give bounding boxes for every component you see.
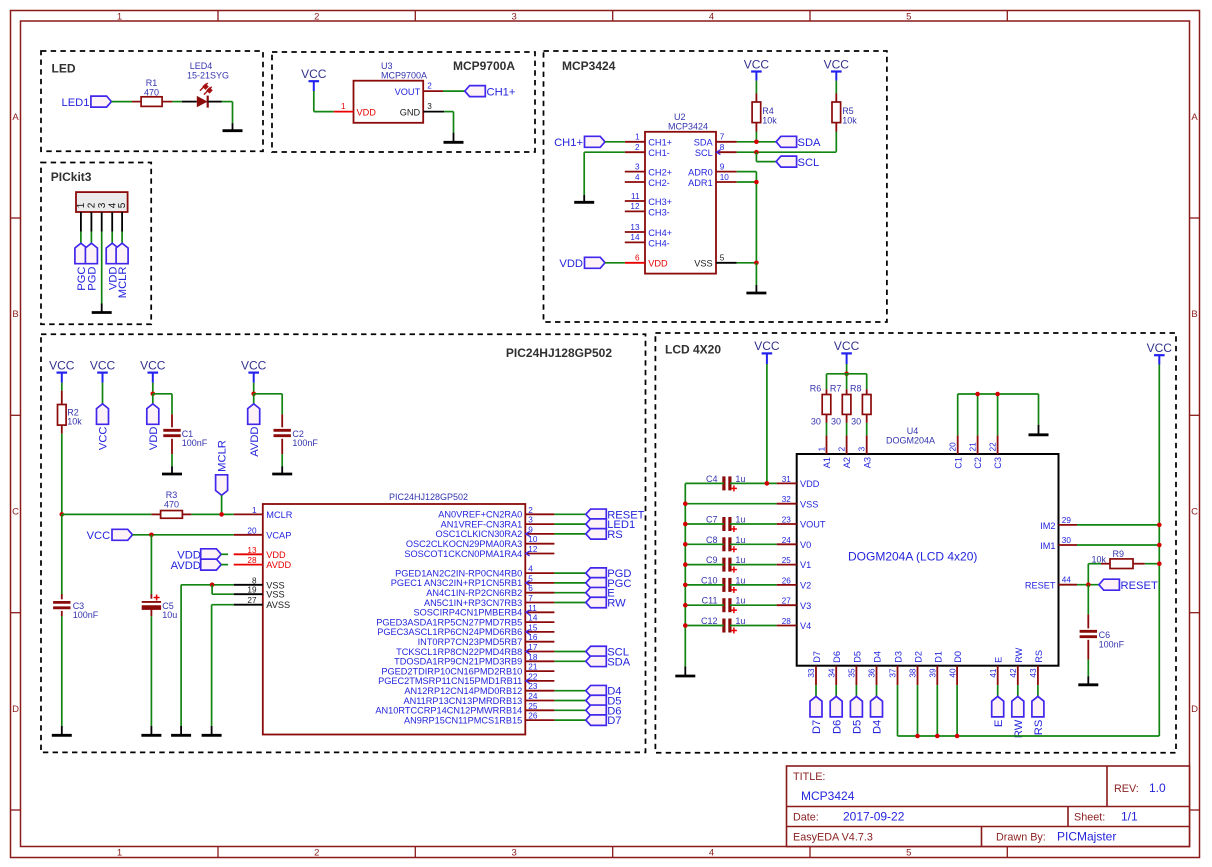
wire (685, 523, 776, 525)
svg-text:D: D (12, 704, 19, 715)
svg-text:AN10RTCCRP14CN12PMWRRB14: AN10RTCCRP14CN12PMWRRB14 (375, 706, 522, 716)
svg-text:30: 30 (1062, 536, 1072, 545)
svg-text:A2: A2 (842, 457, 852, 468)
svg-text:R9: R9 (1113, 549, 1125, 559)
wire (1077, 544, 1159, 546)
svg-text:D5: D5 (852, 720, 864, 734)
junction (754, 140, 759, 145)
pin 3 (101, 212, 103, 232)
ground (92, 304, 112, 313)
wire (254, 394, 283, 414)
svg-text:V1: V1 (800, 560, 811, 570)
svg-text:EasyEDA V4.7.3: EasyEDA V4.7.3 (793, 832, 873, 844)
svg-text:33: 33 (807, 668, 816, 678)
wire (1088, 564, 1159, 585)
pin 33 D7 (807, 651, 822, 685)
svg-text:Sheet:: Sheet: (1074, 812, 1105, 824)
pin 20 C1 (949, 435, 964, 468)
svg-text:SDA: SDA (694, 138, 714, 148)
VCC symbol (90, 358, 116, 382)
net flag VDD (106, 243, 119, 290)
svg-text:C12: C12 (701, 616, 718, 626)
pin 32 VSS (777, 495, 819, 509)
pin 2 CH1- (625, 143, 670, 158)
pin 6 AN4C1IN-RP2CN6RB2 (426, 584, 554, 598)
pin 26 AN9RP15CN11PMCS1RB15 (404, 712, 554, 726)
capacitor C7 1u (706, 515, 745, 533)
net flag RS (1032, 696, 1045, 735)
ground (272, 466, 292, 474)
svg-text:VSS: VSS (266, 590, 284, 600)
net flag D7 (810, 696, 823, 734)
svg-text:MCP3424: MCP3424 (668, 122, 708, 132)
svg-text:RESET: RESET (1025, 581, 1056, 591)
svg-text:ADR0: ADR0 (688, 168, 713, 178)
pin 1 CH1+ (625, 133, 672, 148)
svg-text:AN5C1IN+RP3CN7RB3: AN5C1IN+RP3CN7RB3 (424, 598, 522, 608)
pin 23 VOUT (777, 516, 826, 530)
junction (1157, 543, 1162, 548)
wire (685, 584, 776, 586)
svg-text:V0: V0 (800, 540, 811, 550)
svg-text:3: 3 (858, 446, 867, 451)
svg-text:1u: 1u (735, 575, 745, 585)
wire (737, 262, 757, 264)
svg-text:30: 30 (851, 417, 861, 427)
net flag MCLR (216, 440, 229, 495)
svg-text:2: 2 (635, 143, 640, 152)
junction (683, 603, 688, 608)
pin 13 VDD (234, 546, 286, 560)
svg-text:100nF: 100nF (1099, 639, 1125, 649)
capacitor C11 1u (702, 596, 746, 614)
capacitor C4 1u (706, 474, 745, 492)
svg-text:V3: V3 (800, 601, 811, 611)
wire (685, 625, 776, 627)
svg-text:DOGM204A (LCD 4x20): DOGM204A (LCD 4x20) (848, 550, 977, 564)
svg-text:C1: C1 (953, 457, 963, 469)
wire (827, 374, 867, 389)
svg-text:VSS: VSS (800, 499, 818, 509)
wire (554, 660, 585, 662)
svg-text:VCC: VCC (744, 57, 770, 71)
VCC symbol (754, 339, 780, 364)
svg-text:3: 3 (635, 162, 640, 171)
pin 8 VSS (234, 576, 285, 590)
LCD 4X20 block outline (655, 333, 1176, 753)
svg-text:9: 9 (720, 162, 725, 171)
net flag PGD (586, 568, 632, 580)
capacitor C9 1u (706, 555, 745, 573)
svg-text:11: 11 (528, 604, 537, 613)
svg-text:U2: U2 (674, 112, 686, 122)
svg-text:PGD: PGD (87, 267, 99, 291)
wire (554, 572, 585, 574)
wire (835, 685, 837, 696)
svg-text:31: 31 (782, 475, 792, 484)
wire (1077, 524, 1159, 526)
svg-text:SOSCOT1CKCN0PMA1RA4: SOSCOT1CKCN0PMA1RA4 (404, 549, 522, 559)
svg-text:AN4C1IN-RP2CN6RB2: AN4C1IN-RP2CN6RB2 (426, 588, 522, 598)
resistor R6 30 (810, 384, 831, 427)
svg-text:C: C (1191, 507, 1198, 518)
svg-text:PICMajster: PICMajster (1057, 830, 1116, 844)
pin 22 PGEC2TMSRP11CN15PMD1RB11 (378, 672, 554, 686)
svg-text:D3: D3 (894, 651, 904, 663)
svg-text:4: 4 (528, 565, 533, 574)
VCC symbol (824, 57, 850, 80)
pin 1 MCLR (234, 506, 293, 520)
wire (835, 132, 837, 152)
svg-text:12: 12 (630, 202, 640, 211)
svg-text:D4: D4 (872, 720, 884, 734)
net flag CH1+ (465, 86, 516, 99)
svg-text:VDD: VDD (800, 479, 820, 489)
pin 12 CH3- (625, 202, 670, 217)
wire (121, 232, 123, 244)
svg-text:CH2-: CH2- (648, 178, 669, 188)
svg-text:25: 25 (782, 556, 792, 565)
pin 1 VDD (334, 102, 377, 117)
net flag D4 (586, 685, 622, 697)
pin 4 CH2- (625, 173, 670, 188)
ground (1078, 676, 1098, 685)
svg-text:2: 2 (427, 82, 432, 91)
wire MCLR net (62, 513, 152, 515)
svg-text:AVSS: AVSS (266, 600, 290, 610)
ground (202, 726, 222, 735)
wire (444, 112, 453, 133)
svg-text:19: 19 (247, 586, 257, 595)
svg-text:CH1-: CH1- (648, 148, 669, 158)
wire (172, 101, 181, 103)
svg-text:5: 5 (720, 254, 725, 263)
pin 14 CH4- (625, 233, 670, 248)
junction (149, 533, 154, 538)
svg-text:2: 2 (314, 847, 319, 858)
pin 31 VDD (777, 475, 820, 489)
svg-text:1: 1 (117, 11, 122, 22)
net flag LED1 (586, 519, 635, 531)
svg-text:TCKSCL1RP8CN22PMD4RB8: TCKSCL1RP8CN22PMD4RB8 (396, 647, 522, 657)
svg-text:23: 23 (528, 682, 538, 691)
svg-text:VOUT: VOUT (395, 87, 421, 97)
svg-text:5: 5 (528, 574, 533, 583)
wire (222, 102, 233, 124)
wire (554, 709, 585, 711)
svg-text:44: 44 (1062, 576, 1072, 585)
svg-text:25: 25 (528, 702, 538, 711)
svg-text:RESET: RESET (1121, 580, 1158, 592)
pin 29 IM2 (1040, 516, 1077, 531)
capacitor C1 100nF (163, 414, 207, 454)
svg-text:100nF: 100nF (292, 438, 318, 448)
svg-text:D6: D6 (831, 720, 843, 734)
svg-text:CH4+: CH4+ (648, 228, 672, 238)
pin 2 VOUT (395, 82, 443, 97)
svg-text:C11: C11 (702, 596, 718, 606)
svg-text:1: 1 (117, 847, 122, 858)
ground (52, 726, 72, 735)
svg-text:17: 17 (528, 643, 538, 652)
pin 3 GND (400, 102, 444, 117)
svg-text:D5: D5 (852, 651, 862, 663)
svg-text:VCC: VCC (824, 57, 850, 71)
wire (685, 564, 776, 566)
svg-text:5: 5 (906, 11, 911, 22)
pin 11 SOSCIRP4CN1PMBERB4 (414, 604, 555, 618)
svg-text:VCC: VCC (301, 67, 327, 81)
svg-text:AN1VREF-CN3RA1: AN1VREF-CN3RA1 (441, 519, 523, 529)
wire (685, 543, 776, 545)
VCC symbol (1147, 341, 1173, 365)
wire SCL (737, 151, 837, 153)
svg-text:22: 22 (528, 672, 538, 681)
svg-text:OSC2CLKOCN29PMA0RA3: OSC2CLKOCN29PMA0RA3 (406, 539, 522, 549)
svg-text:2: 2 (837, 446, 846, 451)
wire (554, 700, 585, 702)
svg-text:5: 5 (906, 847, 911, 858)
svg-text:VCC: VCC (1147, 341, 1173, 355)
svg-text:22: 22 (988, 442, 997, 452)
wire (443, 90, 465, 92)
resistor R2 (58, 391, 83, 434)
net flag D7 (586, 715, 622, 727)
wire (61, 383, 63, 391)
svg-text:10: 10 (528, 535, 538, 544)
ground (162, 466, 182, 474)
svg-text:4: 4 (709, 11, 714, 22)
wire (554, 719, 585, 721)
pin 10 ADR1 (688, 173, 737, 188)
wire (61, 434, 63, 515)
wire (111, 232, 113, 244)
LED block outline (41, 51, 263, 151)
net flag VDD (559, 257, 605, 270)
svg-text:14: 14 (528, 614, 538, 623)
wire data bus (898, 685, 1160, 736)
svg-text:R7: R7 (830, 384, 842, 394)
svg-text:9: 9 (528, 525, 533, 534)
svg-text:VCC: VCC (140, 358, 166, 372)
junction (683, 562, 688, 567)
net flag SDA (586, 656, 631, 668)
svg-text:E: E (994, 657, 1004, 663)
svg-text:MCLR: MCLR (217, 440, 229, 472)
wire (846, 364, 848, 374)
wire (997, 685, 999, 696)
ground (141, 726, 161, 735)
junction (975, 392, 980, 397)
junction (844, 372, 849, 377)
svg-text:1u: 1u (735, 616, 745, 626)
pin 9 OSC1CLKICN30RA2 (435, 525, 554, 539)
PIC24HJ128GP502 block outline (41, 334, 646, 752)
wire (1037, 685, 1039, 696)
capacitor C2 100nF (274, 414, 319, 454)
VCC symbol (834, 339, 860, 364)
pin 2 (90, 212, 92, 232)
svg-text:4: 4 (709, 847, 714, 858)
wire (958, 394, 1039, 435)
svg-text:28: 28 (782, 617, 792, 626)
svg-text:26: 26 (528, 712, 538, 721)
svg-text:30: 30 (831, 417, 841, 427)
wire (855, 685, 857, 696)
IC U3 MCP9700A (354, 61, 428, 123)
pin 2 A2 (837, 435, 852, 468)
IC U1 PIC24HJ128GP502 (263, 492, 526, 735)
svg-text:TITLE:: TITLE: (793, 771, 825, 783)
junction (915, 734, 920, 739)
capacitor C5 10u (142, 594, 178, 620)
wire SDA (737, 141, 776, 143)
junction (1157, 561, 1162, 566)
pin 27 AVSS (234, 596, 290, 610)
ground (746, 285, 766, 293)
svg-text:PGED2TDIRP10CN16PMD2RB10: PGED2TDIRP10CN16PMD2RB10 (381, 666, 522, 676)
svg-text:CH4-: CH4- (648, 238, 669, 248)
svg-text:OSC1CLKICN30RA2: OSC1CLKICN30RA2 (435, 529, 522, 539)
MCP3424 block outline (544, 51, 887, 322)
svg-text:CH3-: CH3- (648, 207, 669, 217)
capacitor C12 1u (701, 616, 745, 634)
wire VSS (181, 584, 234, 586)
svg-text:RS: RS (607, 529, 623, 541)
VCC symbol (49, 358, 75, 382)
wire (90, 232, 92, 244)
svg-text:AN9RP15CN11PMCS1RB15: AN9RP15CN11PMCS1RB15 (404, 715, 522, 725)
svg-text:Date:: Date: (793, 812, 819, 824)
svg-text:VDD: VDD (266, 550, 286, 560)
svg-text:D: D (1191, 704, 1198, 715)
net flag D4 (871, 696, 884, 734)
svg-text:V2: V2 (800, 581, 811, 591)
svg-text:VCC: VCC (98, 427, 110, 451)
net flag PGC (75, 243, 88, 291)
junction (210, 583, 215, 588)
svg-text:20: 20 (949, 442, 958, 452)
svg-text:CH1+: CH1+ (648, 138, 672, 148)
wire (1087, 660, 1089, 677)
wire (737, 172, 757, 263)
wire (150, 616, 152, 726)
svg-text:DOGM204A: DOGM204A (886, 436, 935, 446)
svg-text:AVDD: AVDD (249, 427, 261, 457)
pin 8 SCL (695, 143, 737, 158)
svg-text:27: 27 (247, 596, 257, 605)
svg-text:CH2+: CH2+ (648, 168, 672, 178)
wire (61, 616, 63, 726)
svg-text:RS: RS (1033, 720, 1045, 736)
LED LED4 15-21SYG (182, 61, 229, 107)
wire (314, 91, 334, 112)
IC U2 MCP3424 (645, 112, 716, 274)
svg-text:VCC: VCC (90, 358, 116, 372)
svg-text:IM2: IM2 (1040, 521, 1055, 531)
svg-text:VSS: VSS (694, 259, 712, 269)
svg-text:MCP3424: MCP3424 (562, 59, 616, 73)
svg-text:TDOSDA1RP9CN21PMD3RB9: TDOSDA1RP9CN21PMD3RB9 (394, 657, 522, 667)
net flag MCLR (116, 243, 129, 298)
svg-text:40: 40 (948, 668, 957, 678)
svg-text:IM1: IM1 (1040, 541, 1055, 551)
wire (815, 685, 817, 696)
svg-text:13: 13 (247, 546, 257, 555)
capacitor C8 1u (706, 535, 745, 553)
VCC symbol (744, 57, 770, 80)
svg-text:MCP3424: MCP3424 (801, 789, 855, 803)
svg-text:41: 41 (989, 668, 998, 678)
wire (685, 503, 776, 505)
net flag D6 (830, 696, 843, 734)
wire (171, 454, 173, 466)
svg-text:14: 14 (630, 233, 640, 242)
svg-text:15: 15 (528, 623, 538, 632)
svg-text:43: 43 (1029, 668, 1038, 678)
wire (554, 651, 585, 653)
svg-text:10u: 10u (162, 610, 177, 620)
svg-text:SCL: SCL (695, 148, 713, 158)
wire (150, 535, 152, 594)
wire (221, 553, 228, 555)
wire (866, 423, 868, 436)
svg-text:V4: V4 (800, 621, 811, 631)
net flag LED1 (62, 96, 112, 109)
svg-text:VDD: VDD (559, 258, 583, 270)
svg-text:D7: D7 (811, 720, 823, 734)
svg-text:RS: RS (1034, 650, 1044, 663)
pin 44 RESET (1025, 576, 1077, 591)
svg-text:1: 1 (817, 446, 826, 451)
wire (755, 132, 757, 142)
svg-text:10k: 10k (762, 116, 777, 126)
svg-text:AN12RP12CN14PMD0RB12: AN12RP12CN14PMD0RB12 (404, 686, 522, 696)
pin 22 C3 (988, 435, 1003, 468)
svg-text:PGEC3ASCL1RP6CN24PMD6RB6: PGEC3ASCL1RP6CN24PMD6RB6 (377, 627, 522, 637)
svg-text:12: 12 (528, 545, 538, 554)
svg-text:VCC: VCC (49, 358, 75, 372)
svg-text:A3: A3 (862, 457, 872, 468)
pin 9 ADR0 (688, 162, 737, 177)
svg-text:R6: R6 (810, 384, 822, 394)
svg-text:VDD: VDD (357, 107, 377, 117)
svg-text:ADR1: ADR1 (688, 178, 713, 188)
svg-text:MCP9700A: MCP9700A (453, 59, 515, 73)
svg-text:RW: RW (607, 598, 626, 610)
svg-text:34: 34 (827, 668, 836, 678)
svg-text:MCLR: MCLR (266, 510, 292, 520)
net flag D5 (586, 695, 622, 707)
pin 40 D0 (948, 651, 963, 685)
svg-text:10k: 10k (842, 116, 857, 126)
wire (554, 513, 585, 515)
pin 2 AN0VREF+CN2RA0 (438, 506, 554, 520)
svg-text:VCC: VCC (241, 358, 267, 372)
svg-text:AN0VREF+CN2RA0: AN0VREF+CN2RA0 (438, 510, 522, 520)
net flag D6 (586, 705, 622, 717)
ground (574, 195, 594, 202)
net flag AVDD (248, 404, 261, 457)
junction (1086, 582, 1091, 587)
junction (683, 501, 688, 506)
svg-text:D4: D4 (873, 651, 883, 663)
capacitor C10 1u (701, 575, 745, 593)
svg-text:SDA: SDA (607, 656, 631, 668)
junction (683, 522, 688, 527)
svg-text:42: 42 (1009, 668, 1018, 678)
svg-text:7: 7 (528, 594, 533, 603)
